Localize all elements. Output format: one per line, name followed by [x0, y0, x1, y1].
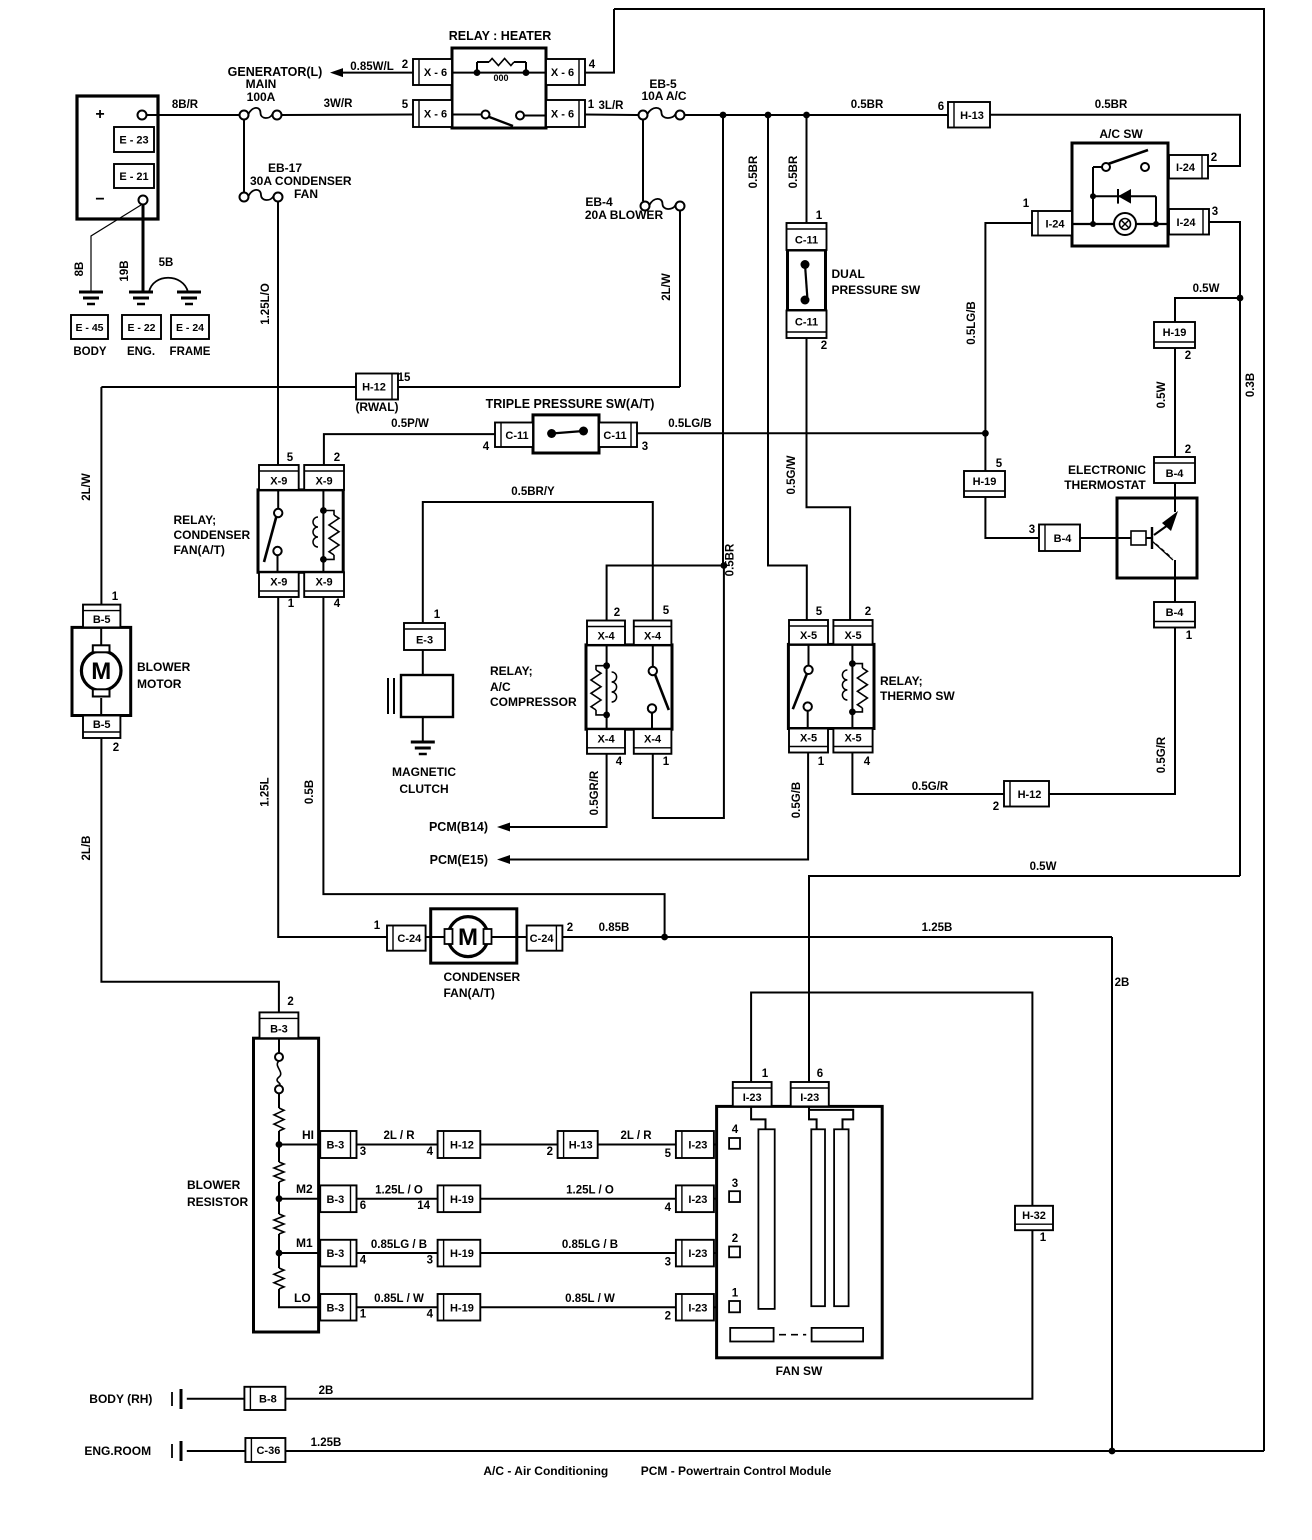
connector X-5 pin1 [789, 729, 828, 769]
svg-text:2: 2 [113, 742, 119, 754]
svg-text:H-19: H-19 [1163, 327, 1187, 339]
svg-text:10A A/C: 10A A/C [641, 89, 686, 103]
svg-text:4: 4 [665, 1202, 672, 1214]
connector B-5 pin1 [83, 591, 120, 627]
relay RELAY; THERMO SW [788, 644, 955, 728]
svg-text:1: 1 [434, 609, 441, 621]
wire 2L/W rail through H-12 (RWAL) [101, 386, 680, 388]
svg-text:RELAY : HEATER: RELAY : HEATER [449, 29, 552, 43]
svg-text:ENG.ROOM: ENG.ROOM [84, 1444, 151, 1458]
switch DUAL PRESSURE SW [788, 250, 921, 311]
connector I-23 row LO pin2 [665, 1294, 714, 1323]
svg-text:4: 4 [864, 756, 871, 768]
junction 0.5W branch [1237, 295, 1244, 302]
svg-text:19B: 19B [119, 260, 131, 281]
junction on 0.5BR rail at x=768 [765, 112, 772, 119]
svg-text:C-11: C-11 [603, 430, 626, 442]
svg-text:2L/B: 2L/B [81, 836, 93, 861]
connector C-24 pin2 [527, 922, 574, 951]
junction 0.85B [661, 934, 668, 941]
svg-text:H-19: H-19 [450, 1302, 474, 1314]
wire H-12 to H-13 row HI [480, 1144, 557, 1146]
svg-text:MAIN: MAIN [246, 77, 277, 91]
battery [77, 96, 158, 219]
svg-text:4: 4 [334, 598, 341, 610]
wire 0.5W from A/C SW pin3 to fan switch pin6 [809, 861, 1240, 1082]
wire H-32 to BODY(RH) 2B [187, 1230, 1033, 1399]
svg-text:0.5W: 0.5W [1030, 861, 1057, 873]
connector B-5 pin2 [83, 716, 120, 755]
wire triple pressure to thermostat junction 0.5LG/B [634, 418, 986, 433]
svg-text:0.85LG / B: 0.85LG / B [562, 1239, 618, 1251]
wire H-19 to I-23 row M1 [480, 1239, 676, 1253]
wire battery- to ENG ground, 19B [119, 204, 143, 292]
X-9 coil [313, 490, 339, 572]
connector X-6 pin5 [402, 99, 452, 127]
svg-text:2L/W: 2L/W [81, 473, 93, 501]
wire 0.5BR/Y from E-3 to X-4 pin5 [423, 486, 653, 623]
X-9 contact [264, 490, 282, 572]
svg-text:−: − [95, 191, 104, 208]
connector X-6 pin4 [546, 59, 596, 85]
svg-text:PRESSURE SW: PRESSURE SW [832, 283, 921, 297]
svg-text:X-4: X-4 [644, 631, 662, 643]
svg-text:A/C SW: A/C SW [1099, 127, 1143, 141]
connector X-9 pin1 [259, 572, 299, 610]
X-5 contact [793, 644, 813, 728]
svg-text:1: 1 [374, 920, 381, 932]
wire I-23 to fan switch row HI [714, 1144, 729, 1146]
svg-text:3: 3 [732, 1178, 738, 1190]
svg-text:1.25L/O: 1.25L/O [260, 283, 272, 325]
svg-text:0.5GR/R: 0.5GR/R [589, 770, 601, 815]
svg-text:E - 22: E - 22 [127, 322, 155, 334]
blower resistor thermal fuse [275, 1038, 283, 1100]
svg-text:3: 3 [360, 1146, 366, 1158]
svg-text:0.85B: 0.85B [599, 922, 630, 934]
fan switch contact bar 1 [758, 1129, 774, 1309]
svg-text:RELAY;: RELAY; [880, 674, 923, 688]
wire H-19 to I-23 row LO [480, 1293, 676, 1307]
junction 0.5BR compressor [721, 562, 728, 569]
svg-text:RESISTOR: RESISTOR [187, 1195, 248, 1209]
svg-text:2: 2 [665, 1311, 671, 1323]
svg-text:X-9: X-9 [316, 577, 333, 589]
wire top rail to right side 0.3B [614, 9, 1264, 1451]
connector B-4 pin1 [1154, 602, 1195, 642]
svg-text:MOTOR: MOTOR [137, 677, 182, 691]
connector H-19 row LO pin4 [427, 1294, 481, 1321]
svg-text:X - 6: X - 6 [424, 67, 447, 79]
svg-text:H-13: H-13 [569, 1140, 593, 1152]
label BODY (RH) [89, 1389, 181, 1409]
wire B-4 pin2 to thermostat [1174, 483, 1176, 498]
svg-text:1: 1 [1040, 1232, 1047, 1244]
connector I-23 pin1 (fan sw top) [733, 1068, 772, 1106]
connector H-19 pin2 [1154, 322, 1195, 362]
svg-text:I-24: I-24 [1046, 218, 1066, 230]
relay heater coil [452, 59, 546, 84]
connector X-5 pin5 [789, 606, 828, 644]
svg-text:4: 4 [427, 1146, 434, 1158]
wire H-19 pin5 to B-4 pin3 [985, 497, 1039, 538]
svg-text:I-23: I-23 [688, 1302, 707, 1314]
relay RELAY; A/C COMPRESSOR [490, 645, 672, 729]
wire junction down to H-19 pin5 [984, 433, 986, 471]
svg-text:RELAY;: RELAY; [490, 664, 533, 678]
connector H-19 row M2 pin14 [417, 1185, 480, 1212]
svg-text:0.85L / W: 0.85L / W [374, 1293, 424, 1305]
switch FAN SW [717, 1106, 883, 1378]
wire X-5 pin1 to PCM(E15) [509, 753, 808, 860]
wire battery- to BODY ground, 8B [74, 205, 141, 292]
svg-text:I-24: I-24 [1176, 162, 1196, 174]
fan switch bottom pad left [730, 1328, 773, 1342]
svg-text:BODY (RH): BODY (RH) [89, 1392, 152, 1406]
svg-text:2L / R: 2L / R [383, 1130, 415, 1142]
connector I-24 pin1 [1023, 198, 1072, 236]
ground ENG [129, 292, 153, 304]
connector C-24 pin1 [387, 926, 426, 951]
connector H-12 (RWAL) pin15 [355, 372, 411, 414]
tap LO [279, 1289, 320, 1307]
junction 1.25B at ENG.ROOM line [1109, 1448, 1116, 1455]
svg-text:6: 6 [817, 1068, 823, 1080]
footer legend [483, 1464, 831, 1478]
tap HI [276, 1128, 321, 1148]
wire B-3 to H-12 row HI [357, 1130, 438, 1145]
wire H-19 to B-4 pin2, 0.5W [1156, 348, 1175, 457]
svg-text:5: 5 [816, 606, 823, 618]
svg-text:FAN: FAN [294, 187, 318, 201]
svg-text:I-23: I-23 [688, 1248, 707, 1260]
svg-text:2: 2 [614, 607, 620, 619]
svg-text:2: 2 [865, 606, 871, 618]
svg-text:1: 1 [663, 756, 670, 768]
thermostat transistor [1117, 498, 1178, 578]
svg-text:0.85W/L: 0.85W/L [350, 61, 393, 73]
switch A/C SW [1072, 127, 1168, 246]
wire EB-17 to X-9 pin5, 1.25L/O [260, 202, 278, 465]
svg-text:1.25B: 1.25B [922, 922, 953, 934]
connector H-12 row HI pin4 [427, 1131, 481, 1158]
svg-text:0.5P/W: 0.5P/W [391, 418, 429, 430]
svg-text:8B: 8B [74, 262, 86, 277]
wire junction to X-4 pin2 [607, 543, 737, 622]
label PCM(B14) [429, 820, 510, 834]
svg-text:C-24: C-24 [530, 933, 555, 945]
svg-text:0.5BR/Y: 0.5BR/Y [511, 486, 555, 498]
svg-text:DUAL: DUAL [832, 267, 865, 281]
svg-text:30A CONDENSER: 30A CONDENSER [250, 174, 352, 188]
wire A/C SW pin3 down, 0.5W [1209, 222, 1240, 876]
svg-text:0.5W: 0.5W [1193, 283, 1220, 295]
svg-text:C-24: C-24 [397, 933, 422, 945]
svg-text:2L / R: 2L / R [620, 1130, 652, 1142]
svg-text:0.5LG/B: 0.5LG/B [668, 418, 711, 430]
svg-text:5: 5 [287, 452, 294, 464]
tap M1 [276, 1236, 321, 1256]
relay RELAY; CONDENSER FAN(A/T) [174, 490, 344, 572]
svg-text:(RWAL): (RWAL) [355, 400, 398, 414]
fan switch pin1 internal link [751, 1106, 765, 1129]
svg-text:B-4: B-4 [1166, 468, 1185, 480]
blower resistor element HI [274, 1108, 284, 1131]
wire rail to dual pressure C-11 pin1, 0.5BR [788, 115, 807, 223]
connector B-3 pin2 [260, 1012, 299, 1038]
svg-text:M1: M1 [296, 1236, 313, 1250]
wire relay heater pin4 to top rail [585, 9, 614, 73]
svg-text:C-11: C-11 [795, 235, 818, 247]
ground magnetic clutch [411, 742, 435, 754]
condenser fan motor [426, 909, 527, 1000]
label ENG.ROOM [84, 1441, 181, 1461]
svg-text:2: 2 [993, 801, 999, 813]
A/C SW contact [1093, 150, 1149, 224]
connector C-11 pin1 (dual) [787, 210, 827, 250]
svg-text:0.5G/R: 0.5G/R [1156, 736, 1168, 773]
wire 1.25B down to ENG.ROOM line [1111, 937, 1113, 1451]
svg-text:X - 6: X - 6 [551, 67, 574, 79]
svg-text:+: + [95, 106, 104, 123]
svg-text:B-3: B-3 [326, 1140, 344, 1152]
svg-text:1: 1 [288, 598, 295, 610]
wire X-9 pin1 to condenser fan, 1.25L [260, 597, 388, 937]
svg-text:3: 3 [1029, 524, 1035, 536]
svg-text:H-12: H-12 [450, 1140, 474, 1152]
connector C-11 pin3 [599, 423, 648, 454]
connector X-6 pin2 [402, 59, 452, 85]
svg-text:E - 21: E - 21 [119, 171, 148, 183]
svg-text:I-23: I-23 [800, 1092, 819, 1104]
wire B-3 to H-19 row M1 [357, 1239, 438, 1253]
connector C-11 pin4 [483, 423, 533, 454]
wire EB-5 to EB-4 [642, 120, 644, 201]
wire battery+ to MAIN fuse, 8B/R [146, 99, 239, 115]
tap M2 [276, 1182, 321, 1202]
svg-text:LO: LO [294, 1291, 311, 1305]
connector I-23 row M1 pin3 [665, 1240, 714, 1269]
wire B-3 to H-19 row LO [357, 1293, 438, 1307]
svg-text:CONDENSER: CONDENSER [174, 528, 251, 542]
svg-text:X-5: X-5 [844, 733, 861, 745]
connector X-4 pin4 [587, 729, 625, 768]
wire dual pressure pin2 to X-5 pin2, 0.5G/W [786, 338, 850, 622]
svg-text:1.25B: 1.25B [311, 1437, 342, 1449]
wire ENG ground to FRAME ground, 5B [149, 257, 188, 292]
connector X-4 pin1 [634, 729, 672, 768]
wire main 0.5BR rail [685, 99, 948, 115]
svg-text:X - 6: X - 6 [424, 109, 447, 121]
svg-text:PCM(B14): PCM(B14) [429, 820, 488, 834]
connector H-13 row HI pin2 [547, 1131, 598, 1158]
svg-text:2L/W: 2L/W [661, 273, 673, 301]
wire B-3 to H-19 row M2 [357, 1184, 438, 1198]
svg-text:5: 5 [402, 99, 409, 111]
wire rail down 0.5BR to compressor relay [722, 115, 724, 566]
svg-text:2: 2 [1211, 152, 1217, 164]
X-4 coil [591, 645, 617, 729]
svg-text:H-19: H-19 [450, 1194, 474, 1206]
connector X-9 pin4 [304, 572, 344, 610]
fan switch contact bar 2 [811, 1129, 825, 1306]
svg-text:0.5W: 0.5W [1156, 381, 1168, 408]
connector B-4 pin3 [1029, 524, 1080, 551]
ground BODY [79, 292, 103, 304]
connector B-8 [244, 1387, 285, 1410]
svg-text:E - 24: E - 24 [176, 322, 204, 334]
svg-text:B-5: B-5 [93, 719, 111, 731]
A/C SW diode [1090, 189, 1156, 224]
svg-text:14: 14 [417, 1200, 430, 1212]
svg-text:B-3: B-3 [326, 1194, 344, 1206]
svg-text:B-4: B-4 [1166, 607, 1185, 619]
svg-text:2: 2 [1185, 444, 1191, 456]
ground FRAME [177, 292, 201, 304]
fan switch terminal 1 [729, 1288, 740, 1313]
wire junction down to X-4 pin1 [653, 566, 724, 819]
wire B-4 pin3 to thermostat [1080, 537, 1117, 539]
svg-text:B-5: B-5 [93, 614, 111, 626]
svg-text:5: 5 [665, 1148, 672, 1160]
svg-text:X-4: X-4 [597, 734, 615, 746]
svg-text:A/C - Air Conditioning: A/C - Air Conditioning [483, 1464, 608, 1478]
svg-text:1.25L / O: 1.25L / O [566, 1184, 614, 1196]
svg-text:BODY: BODY [73, 346, 107, 358]
svg-text:0.5G/R: 0.5G/R [912, 781, 949, 793]
connector I-23 row HI pin5 [665, 1131, 714, 1160]
connector H-12 pin2 (thermo) [993, 781, 1049, 813]
connector C-11 pin2 (dual) [787, 311, 828, 353]
svg-text:1: 1 [588, 99, 595, 111]
svg-text:2B: 2B [1115, 977, 1130, 989]
electronic thermostat [1064, 463, 1197, 578]
svg-text:B-8: B-8 [259, 1393, 277, 1405]
fuse EB-17 30A CONDENSER FAN [240, 161, 352, 202]
svg-text:100A: 100A [247, 90, 276, 104]
connector X-6 pin1 [546, 99, 595, 127]
fan switch pad dashed link [779, 1334, 806, 1336]
svg-text:1.25L / O: 1.25L / O [375, 1184, 423, 1196]
svg-text:I-23: I-23 [688, 1140, 707, 1152]
svg-text:2: 2 [547, 1146, 553, 1158]
svg-text:H-19: H-19 [973, 476, 997, 488]
junction 0.5LG/B [982, 430, 989, 437]
svg-text:TRIPLE PRESSURE SW(A/T): TRIPLE PRESSURE SW(A/T) [486, 397, 655, 411]
relay heater contact [452, 111, 546, 127]
connector I-24 pin3 [1169, 206, 1218, 235]
blower resistor element M2 [274, 1162, 284, 1182]
wire 0.5W branch to H-19 [1175, 283, 1240, 322]
wire A/C SW pin1, 0.5LG/B down to junction [966, 223, 1032, 433]
svg-text:MAGNETIC: MAGNETIC [392, 765, 456, 779]
svg-text:PCM - Powertrain Control Modul: PCM - Powertrain Control Module [641, 1464, 832, 1478]
svg-text:3: 3 [642, 441, 648, 453]
svg-text:1: 1 [1186, 630, 1193, 642]
blower resistor [187, 1038, 319, 1332]
svg-text:H-32: H-32 [1022, 1210, 1046, 1222]
svg-text:2: 2 [334, 452, 340, 464]
svg-text:FAN(A/T): FAN(A/T) [444, 986, 495, 1000]
svg-text:E - 23: E - 23 [119, 135, 148, 147]
svg-text:4: 4 [483, 441, 490, 453]
svg-text:1: 1 [818, 756, 825, 768]
wire condenser fan 0.85B / 1.25B [562, 922, 1112, 937]
wire B-4 pin1 down 0.5G/R to H-12 [1049, 628, 1175, 795]
wire rail to X-5 pin5, 0.5BR [748, 115, 807, 622]
svg-text:3W/R: 3W/R [324, 98, 353, 110]
svg-text:0.5BR: 0.5BR [748, 155, 760, 188]
svg-text:X-5: X-5 [800, 733, 817, 745]
blower resistor chain [278, 1093, 280, 1268]
connector X-9 pin5 [259, 452, 299, 490]
junction on 0.5BR rail at x=806 [803, 112, 810, 119]
svg-text:X - 6: X - 6 [551, 109, 574, 121]
svg-text:4: 4 [589, 59, 596, 71]
svg-text:4: 4 [360, 1254, 367, 1266]
svg-text:5: 5 [663, 605, 670, 617]
svg-text:3: 3 [665, 1256, 671, 1268]
svg-text:4: 4 [427, 1309, 434, 1321]
svg-text:5B: 5B [159, 257, 174, 269]
connector X-4 pin5 [634, 605, 672, 645]
svg-text:2: 2 [567, 922, 573, 934]
blower resistor element LO [274, 1268, 284, 1289]
svg-text:0.5BR: 0.5BR [851, 99, 884, 111]
svg-text:0.5BR: 0.5BR [725, 543, 737, 576]
svg-text:H-12: H-12 [1018, 789, 1042, 801]
wire H-13 to A/C SW pin2, 0.5BR [990, 99, 1240, 166]
wire thermostat to B-4 pin1 [1174, 578, 1176, 602]
svg-text:CONDENSER: CONDENSER [444, 970, 521, 984]
svg-text:2: 2 [287, 996, 293, 1008]
magnetic clutch [388, 650, 456, 796]
fuse EB-4 20A BLOWER [585, 195, 685, 222]
switch TRIPLE PRESSURE SW(A/T) [486, 397, 655, 453]
fan switch contact bar 3 [834, 1129, 849, 1306]
svg-text:COMPRESSOR: COMPRESSOR [490, 695, 577, 709]
svg-text:EB-17: EB-17 [268, 161, 302, 175]
wire X-9 pin2 to triple pressure, 0.5P/W [324, 418, 495, 465]
svg-text:E-3: E-3 [416, 635, 433, 647]
svg-text:A/C: A/C [490, 680, 511, 694]
connector B-4 pin2 [1154, 444, 1195, 483]
connector B-3 M1 pin4 [320, 1240, 367, 1267]
connector I-23 row M2 pin4 [665, 1185, 714, 1214]
svg-text:1: 1 [816, 210, 823, 222]
svg-text:I-23: I-23 [688, 1194, 707, 1206]
svg-text:6: 6 [360, 1200, 366, 1212]
svg-text:0.85L / W: 0.85L / W [565, 1293, 615, 1305]
svg-text:X-4: X-4 [597, 631, 615, 643]
svg-text:C-11: C-11 [795, 316, 818, 328]
svg-text:4: 4 [616, 756, 623, 768]
svg-text:20A BLOWER: 20A BLOWER [585, 208, 664, 222]
blower resistor element M1 [274, 1214, 284, 1234]
svg-text:FAN(A/T): FAN(A/T) [174, 543, 225, 557]
svg-text:2: 2 [402, 59, 408, 71]
connector H-19 pin5 [964, 458, 1005, 497]
svg-text:X-9: X-9 [316, 475, 333, 487]
junction on 0.5BR rail at x=723 [720, 112, 727, 119]
svg-text:X-5: X-5 [800, 630, 817, 642]
connector H-13 pin6 [938, 101, 990, 128]
svg-text:M2: M2 [296, 1182, 313, 1196]
X-4 contact [648, 645, 669, 729]
svg-text:FRAME: FRAME [170, 346, 211, 358]
wire X-9 pin4 to 0.85B junction, 0.5B [304, 597, 665, 937]
svg-text:H-13: H-13 [960, 110, 984, 122]
